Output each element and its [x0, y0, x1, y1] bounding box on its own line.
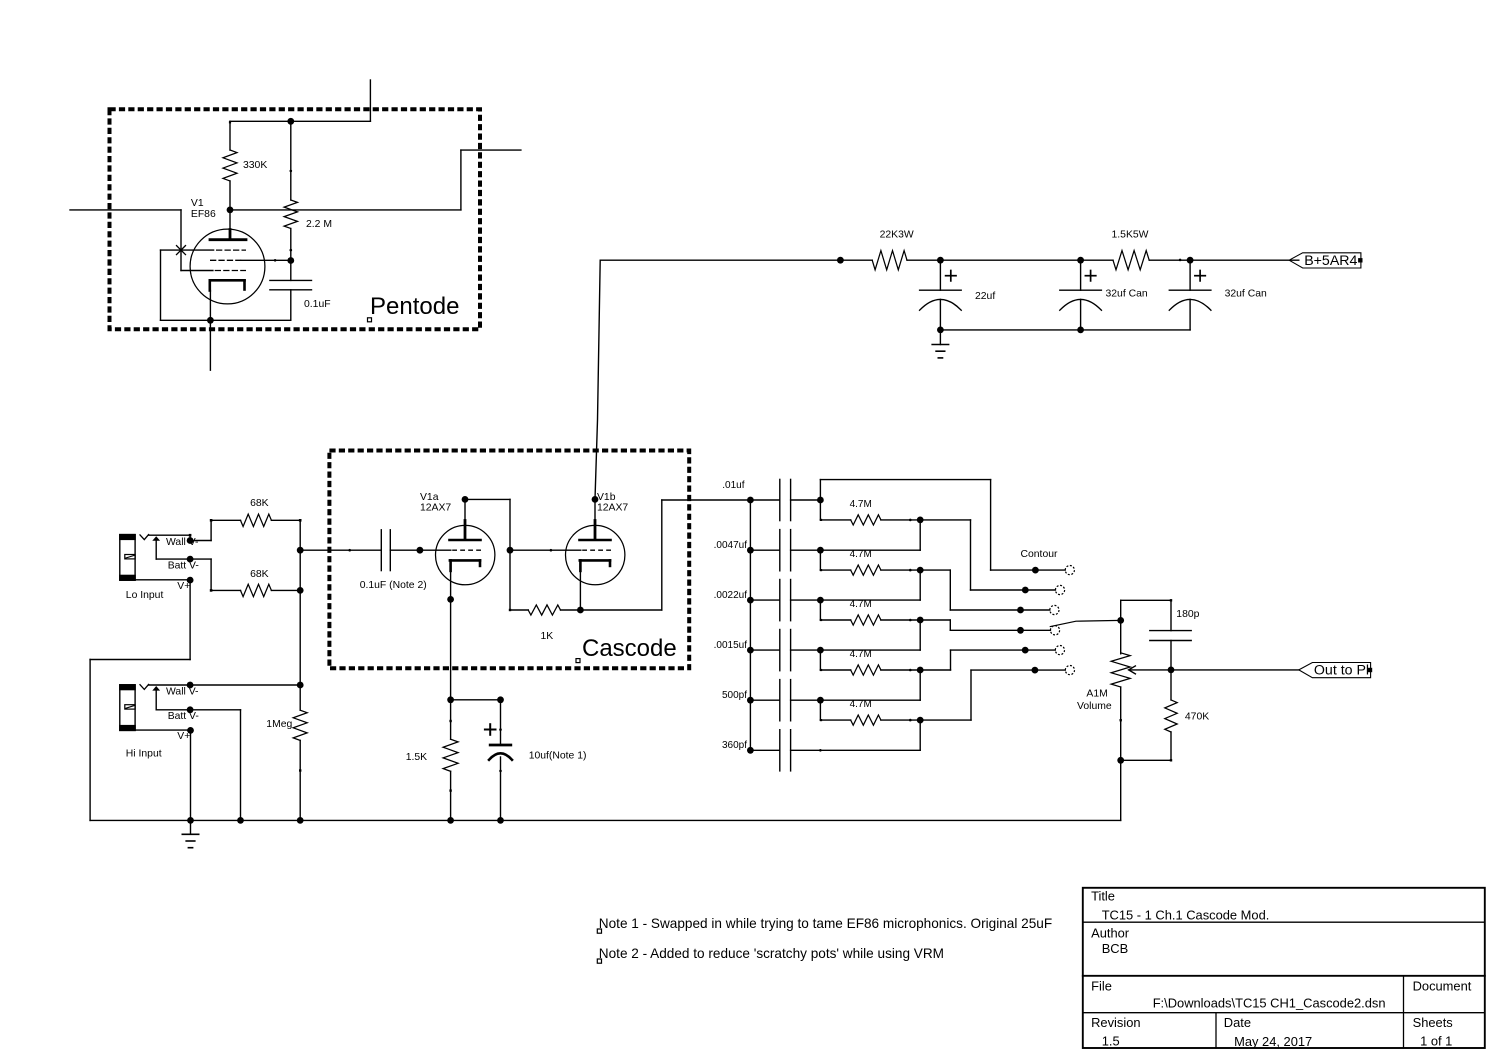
svg-text:May 24, 2017: May 24, 2017 — [1234, 1034, 1312, 1049]
jack Lo Input — [119, 534, 136, 581]
wire plate row to right edge — [230, 150, 521, 210]
label 4.7M r1 — [850, 499, 872, 510]
label 1Meg value — [266, 719, 292, 730]
svg-text:1.5K5W: 1.5K5W — [1112, 230, 1149, 241]
wire feed switch row2 — [920, 520, 1025, 590]
node cap row 3 junction — [817, 597, 824, 604]
tube V1a grid dashes — [420, 549, 481, 551]
node 4.7M r3 junction — [917, 617, 924, 624]
capacitor .0015uf — [750, 630, 820, 671]
tube V1 EF86 envelope — [190, 229, 265, 304]
wire r3 to row 4 — [820, 620, 920, 650]
svg-text:Sheets: Sheets — [1413, 1015, 1453, 1030]
label Hi Wall V- — [166, 687, 199, 698]
wire Hi sleeve down — [190, 730, 192, 820]
label 22uf value — [975, 291, 995, 302]
wire Lo wall to 68K — [190, 520, 211, 540]
label Hi V+ — [177, 731, 190, 742]
switch Contour contact 5 — [1022, 646, 1065, 655]
capacitor 32uf Can 1 — [1060, 260, 1102, 330]
resistor 4.7M r4 — [820, 650, 920, 675]
note 1 marker — [597, 929, 601, 933]
resistor 4.7M r5 — [820, 700, 920, 725]
polarity plus 22uf — [946, 271, 956, 281]
title block Sheets — [1413, 1015, 1453, 1030]
svg-text:Out to Pl: Out to Pl — [1314, 663, 1369, 679]
wire feed switch row6 — [920, 670, 1035, 720]
capacitor 360pf — [750, 730, 820, 771]
wire V1b plate to B+ rail — [595, 260, 600, 499]
wire V1a cathode lead — [450, 599, 452, 699]
label .0022uf value — [714, 590, 748, 601]
title block Date — [1224, 1015, 1251, 1030]
node main input junction — [297, 547, 304, 554]
label V1a designator — [420, 492, 451, 514]
svg-text:4.7M: 4.7M — [850, 499, 872, 510]
marker pentode anchor — [368, 318, 372, 322]
node rail 1Meg — [297, 817, 304, 824]
label 0.1uF value — [304, 299, 331, 310]
wire feed switch row5 — [920, 650, 1025, 670]
wire feed switch row4 — [920, 620, 1020, 630]
svg-text:22K3W: 22K3W — [880, 230, 914, 241]
label Pentode title — [370, 293, 459, 320]
wire pentode bottom — [161, 319, 291, 321]
capacitor 0.1uF pentode — [270, 261, 312, 321]
svg-text:360pf: 360pf — [722, 740, 747, 751]
node Hi wall junction — [187, 682, 194, 689]
wire r5 to row 6 — [919, 720, 921, 750]
label .0047uf value — [714, 540, 748, 551]
polarity plus 32uf-1 — [1085, 271, 1095, 281]
node Lo sleeve junction — [187, 577, 194, 584]
label 360pf value — [722, 740, 747, 751]
label 1K value — [541, 631, 554, 642]
svg-text:Date: Date — [1224, 1015, 1251, 1030]
wire ladder input bus — [749, 500, 751, 750]
node bus junction row 1 — [747, 497, 754, 504]
label 10uf Note1 — [529, 751, 587, 762]
label Hi Batt V- — [168, 711, 199, 722]
label 470K value — [1185, 712, 1209, 723]
title block Document — [1413, 979, 1472, 994]
node cap row 5 junction — [817, 697, 824, 704]
wire r2 to row 3 — [820, 570, 920, 600]
node bus junction row 3 — [747, 597, 754, 604]
wire rail mid — [907, 259, 1113, 261]
wire ground rail — [90, 819, 1121, 821]
switch Contour contact 2 — [1022, 585, 1065, 594]
node V1a cathode pin — [447, 596, 454, 603]
svg-text:22uf: 22uf — [975, 291, 995, 302]
ground psu — [932, 345, 948, 358]
wire B+ rail left — [600, 259, 872, 261]
wire Lo tip lead — [149, 534, 192, 541]
node screen junction — [287, 257, 294, 264]
label 330K value — [243, 160, 267, 171]
svg-text:4.7M: 4.7M — [850, 699, 872, 710]
pot wiper arrow — [1129, 666, 1171, 674]
svg-text:Contour: Contour — [1021, 549, 1059, 560]
resistor 1K — [509, 605, 581, 615]
svg-text:1 of 1: 1 of 1 — [1420, 1034, 1452, 1049]
node bus junction row 2 — [747, 547, 754, 554]
potentiometer A1M — [1111, 620, 1130, 760]
net flag B+5AR4 — [1289, 253, 1362, 269]
svg-text:Wall V-: Wall V- — [166, 537, 199, 548]
node V1b grid junction — [507, 547, 514, 554]
label .0015uf value — [714, 640, 748, 651]
title block author text — [1102, 941, 1129, 956]
node 330K bottom junction — [227, 207, 234, 214]
title block date text — [1234, 1034, 1312, 1049]
switch wiper — [1050, 620, 1120, 626]
svg-text:12AX7: 12AX7 — [420, 503, 451, 514]
wire screen lead — [241, 259, 291, 262]
resistor 4.7M r1 — [820, 500, 920, 525]
wire pot top loop — [1121, 599, 1173, 631]
svg-text:B+5AR4: B+5AR4 — [1304, 253, 1357, 269]
jack Hi switch triangle — [152, 686, 160, 691]
label V1b designator — [597, 492, 628, 514]
svg-text:1K: 1K — [541, 631, 554, 642]
wire Hi sleeve — [135, 729, 190, 731]
wire 68K upper to node — [299, 520, 301, 550]
svg-text:0.1uF (Note 2): 0.1uF (Note 2) — [360, 580, 427, 591]
label Lo Wall V- — [166, 537, 199, 548]
svg-text:1.5: 1.5 — [1102, 1034, 1120, 1049]
wire main input line — [300, 549, 381, 552]
node 22uf top junction — [937, 257, 944, 264]
tube V1 grid3 dashes — [215, 270, 246, 272]
node pot bottom junction — [1117, 757, 1124, 764]
wire suppressor-to-cathode — [161, 250, 214, 320]
wire Lo batt to 68K — [190, 559, 211, 590]
label Lo Batt V- — [168, 561, 199, 572]
wire r1 to row 2 — [820, 520, 920, 550]
no-connect X crossing — [177, 246, 186, 255]
svg-text:68K: 68K — [250, 498, 269, 509]
tube V1b cathode — [580, 560, 610, 610]
wire cathode stub below box — [209, 320, 211, 370]
node psu gnd junction 2 — [1077, 327, 1084, 334]
node V1a plate junction — [462, 496, 469, 503]
jack Lo switch triangle — [152, 536, 160, 541]
resistor 68K lower — [210, 584, 300, 596]
svg-text:Pentode: Pentode — [370, 293, 459, 320]
node 32uf-1 top junction — [1077, 257, 1084, 264]
label 32uf Can 1 value — [1106, 289, 1148, 300]
node Hi batt junction — [187, 706, 194, 713]
svg-text:.01uf: .01uf — [722, 480, 744, 491]
switch Contour contact 1 — [1032, 566, 1074, 575]
node bus junction row 6 — [747, 747, 754, 754]
svg-text:Author: Author — [1091, 926, 1130, 941]
svg-text:.0015uf: .0015uf — [714, 640, 748, 651]
node 4.7M r2 junction — [917, 567, 924, 574]
svg-text:330K: 330K — [243, 160, 267, 171]
node rail Hi V+ — [187, 817, 194, 824]
resistor 4.7M r3 — [820, 600, 920, 625]
label 4.7M r4 — [850, 649, 872, 660]
node output junction — [1168, 667, 1175, 674]
svg-text:.0022uf: .0022uf — [714, 590, 748, 601]
svg-text:File: File — [1091, 979, 1112, 994]
svg-text:32uf Can: 32uf Can — [1225, 289, 1267, 300]
node V1b cathode junction — [577, 607, 584, 614]
wire output line — [1171, 669, 1299, 671]
switch Contour contact 4 — [1017, 626, 1060, 635]
node cap row 4 junction — [817, 647, 824, 654]
resistor 2.2M — [284, 121, 297, 260]
svg-text:A1M: A1M — [1086, 689, 1107, 700]
resistor 22K3W — [872, 251, 907, 270]
wire r4 to row 5 — [820, 670, 920, 700]
label 4.7M r3 — [850, 599, 872, 610]
svg-text:.0047uf: .0047uf — [714, 540, 748, 551]
node cap row 6 pin — [819, 749, 920, 752]
node Lo batt junction — [187, 556, 194, 563]
wire bias bus — [299, 550, 301, 710]
wire psu ground bus — [940, 329, 1190, 331]
tube V1a cathode — [450, 560, 480, 599]
svg-text:4.7M: 4.7M — [850, 549, 872, 560]
tube V1a envelope — [436, 525, 495, 584]
wire pot bottom to rail — [1120, 760, 1122, 820]
label 32uf Can 2 value — [1225, 289, 1267, 300]
node Lo wall junction — [187, 537, 194, 544]
svg-text:32uf Can: 32uf Can — [1106, 289, 1148, 300]
node cathode junction — [207, 317, 214, 324]
label Contour — [1021, 549, 1059, 560]
svg-text:Note 2 - Added to reduce 'scra: Note 2 - Added to reduce 'scratchy pots'… — [599, 946, 944, 961]
title block revision text — [1102, 1034, 1120, 1049]
svg-text:TC15 - 1 Ch.1 Cascode Mod.: TC15 - 1 Ch.1 Cascode Mod. — [1102, 908, 1270, 923]
svg-text:Revision: Revision — [1091, 1015, 1140, 1030]
capacitor .01uf — [750, 479, 820, 520]
tube V1b grid dashes — [582, 549, 611, 551]
svg-text:4.7M: 4.7M — [850, 599, 872, 610]
node V1a grid junction — [417, 547, 424, 554]
label 2.2M value — [306, 219, 332, 230]
wire Lo sleeve down — [90, 580, 190, 820]
label 180p value — [1176, 609, 1199, 620]
title block sheets text — [1420, 1034, 1452, 1049]
note 2 text — [599, 946, 944, 961]
title block Revision — [1091, 1015, 1140, 1030]
svg-text:4.7M: 4.7M — [850, 649, 872, 660]
wire Lo batt lead — [156, 541, 190, 559]
node bus junction row 4 — [747, 647, 754, 654]
label 4.7M r5 — [850, 699, 872, 710]
node 4.7M r4 junction — [917, 667, 924, 674]
tube V1 grid1 dashes — [216, 249, 246, 251]
switch Contour contact 3 — [1017, 605, 1059, 614]
wire 470K bottom — [1121, 759, 1171, 761]
svg-text:Document: Document — [1413, 979, 1472, 994]
label 68K upper — [250, 498, 269, 509]
wire pentode top rail — [230, 80, 370, 121]
svg-text:Wall V-: Wall V- — [166, 687, 199, 698]
title block File — [1091, 979, 1112, 994]
capacitor .0022uf — [750, 580, 820, 621]
label Lo V+ — [177, 581, 190, 592]
wire cascode output — [580, 500, 750, 610]
node 10uf top junction — [497, 696, 504, 703]
title block Author — [1091, 926, 1130, 941]
jack Hi Input — [119, 684, 136, 731]
wire gnd stub — [939, 330, 941, 345]
resistor 4.7M r2 — [820, 550, 920, 575]
title block file text — [1153, 996, 1386, 1011]
resistor 330K — [223, 121, 237, 210]
title block Title — [1091, 889, 1115, 904]
label A1M Volume — [1077, 689, 1112, 713]
node V1b plate junction — [592, 496, 599, 503]
label 500pf value — [722, 690, 747, 701]
node cathode RC junction — [447, 696, 454, 703]
switch Contour contact 6 — [1032, 666, 1075, 675]
label 1.5K5W value — [1112, 230, 1149, 241]
label Lo Input — [126, 590, 164, 601]
node Hi sleeve junction — [187, 727, 194, 734]
capacitor 22uf — [920, 260, 962, 330]
svg-text:10uf(Note 1): 10uf(Note 1) — [529, 751, 587, 762]
node cap row 2 junction — [817, 547, 824, 554]
node bus junction row 5 — [747, 697, 754, 704]
wire Hi wall to bus — [190, 684, 300, 686]
node rail 1.5K — [447, 817, 454, 824]
resistor 1Meg — [293, 710, 307, 820]
label .01uf value — [722, 480, 744, 491]
svg-text:Lo Input: Lo Input — [126, 590, 164, 601]
svg-text:0.1uF: 0.1uF — [304, 299, 331, 310]
svg-text:EF86: EF86 — [191, 209, 216, 220]
svg-text:Volume: Volume — [1077, 701, 1112, 712]
note 1 text — [599, 916, 1052, 931]
svg-text:Hi Input: Hi Input — [126, 749, 162, 760]
capacitor 10uf Note1 — [489, 700, 512, 821]
svg-text:470K: 470K — [1185, 712, 1209, 723]
node 4.7M r5 junction — [917, 717, 924, 724]
node rail 10uf — [497, 817, 504, 824]
svg-text:BCB: BCB — [1102, 941, 1129, 956]
node rail Hi batt — [237, 817, 244, 824]
svg-text:Cascode: Cascode — [582, 635, 677, 662]
svg-text:Note 1 - Swapped in while tryi: Note 1 - Swapped in while trying to tame… — [599, 916, 1052, 931]
label 1.5K value — [406, 752, 427, 763]
wire Lo sleeve — [135, 579, 190, 581]
tube V1 plate — [210, 210, 246, 240]
label 22K3W value — [880, 230, 914, 241]
capacitor 32uf Can 2 — [1169, 260, 1211, 330]
title block frame — [1083, 888, 1485, 1048]
dashed box Pentode section — [110, 109, 481, 329]
wire grid input left — [70, 210, 213, 271]
wire rail right — [1149, 259, 1299, 262]
title block title text — [1102, 908, 1270, 923]
svg-text:Batt V-: Batt V- — [168, 711, 199, 722]
wire main gnd stub — [190, 820, 192, 834]
wire Hi batt down — [190, 710, 240, 821]
wire feed switch row3 — [920, 570, 1020, 610]
note 2 marker — [597, 959, 601, 963]
tube V1 grid2 dashes — [210, 259, 241, 261]
svg-text:500pf: 500pf — [722, 690, 747, 701]
resistor 68K upper — [210, 514, 302, 526]
resistor 1.5K5W — [1113, 251, 1149, 270]
tube V1a plate — [450, 499, 481, 540]
label V1 designator — [191, 198, 216, 220]
net flag Out to Plate — [1299, 663, 1372, 679]
svg-text:1Meg: 1Meg — [266, 719, 292, 730]
ground main — [182, 834, 198, 847]
wire V1a plate to divider — [465, 499, 510, 610]
node 32uf-2 top junction — [1187, 257, 1194, 264]
svg-text:180p: 180p — [1176, 609, 1199, 620]
node psu gnd junction 1 — [937, 327, 944, 334]
capacitor .0047uf — [750, 530, 820, 571]
svg-text:F:\Downloads\TC15 CH1_Cascode2: F:\Downloads\TC15 CH1_Cascode2.dsn — [1153, 996, 1386, 1011]
wire feed switch row1 — [820, 480, 1035, 570]
capacitor 180p — [1150, 631, 1191, 670]
node rail junction A — [837, 257, 844, 264]
svg-text:V1a: V1a — [420, 492, 439, 503]
svg-text:V1: V1 — [191, 198, 204, 209]
wire V1b grid lead — [510, 549, 581, 552]
svg-text:68K: 68K — [250, 569, 269, 580]
wire Hi batt lead — [156, 691, 190, 710]
tube V1 cathode — [210, 280, 245, 320]
label 4.7M r2 — [850, 549, 872, 560]
node 4.7M r1 junction — [917, 517, 924, 524]
svg-text:V1b: V1b — [597, 492, 616, 503]
wire Hi tip lead — [149, 684, 192, 687]
svg-text:2.2 M: 2.2 M — [306, 219, 332, 230]
marker cascode anchor — [576, 659, 580, 663]
node cap row 1 junction — [817, 497, 824, 504]
jack Hi tip contact — [140, 684, 149, 689]
label 0.1uF Note2 — [360, 580, 427, 591]
node bias bus junction — [297, 682, 304, 689]
svg-text:Batt V-: Batt V- — [168, 561, 199, 572]
svg-text:1.5K: 1.5K — [406, 752, 427, 763]
resistor 470K — [1165, 670, 1177, 762]
svg-text:Title: Title — [1091, 889, 1115, 904]
label Cascode title — [582, 635, 677, 662]
jack Lo tip contact — [140, 535, 149, 540]
tube V1b plate — [580, 499, 611, 540]
node 68K lower junction — [297, 587, 304, 594]
node wiper junction — [1117, 617, 1124, 624]
polarity plus 32uf-2 — [1195, 271, 1205, 281]
capacitor 500pf — [750, 680, 820, 721]
label Hi Input — [126, 749, 162, 760]
wire cathode RC link — [451, 699, 501, 701]
resistor 1.5K — [443, 700, 458, 821]
polarity plus 10uf — [485, 724, 496, 735]
capacitor 0.1uF Note2 — [381, 530, 420, 571]
label 68K lower — [250, 569, 269, 580]
svg-text:12AX7: 12AX7 — [597, 503, 628, 514]
dashed box Cascode section — [329, 451, 689, 669]
node plate-supply junction — [287, 118, 294, 125]
tube V1b envelope — [566, 525, 625, 584]
